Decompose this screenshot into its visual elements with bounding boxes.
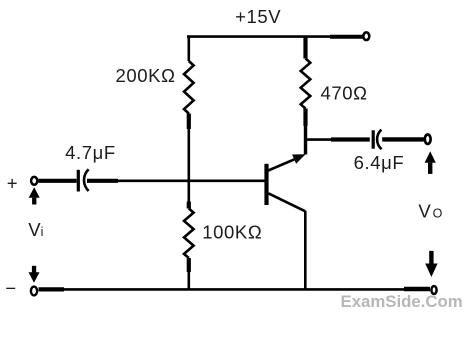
transistor Q1 upper lead xyxy=(268,158,298,171)
arrow output up xyxy=(425,151,436,174)
resistor R2 bottom stub xyxy=(187,258,191,272)
capacitor C2 6.4uF flat plate xyxy=(372,130,375,148)
wire emitter to bottom rail xyxy=(304,211,307,290)
svg-text:Vi: Vi xyxy=(28,219,43,240)
wire top rail thick right segment xyxy=(330,35,363,39)
wire R1 bottom to base node xyxy=(188,129,191,202)
svg-text:−: − xyxy=(5,278,16,299)
resistor R3 470 top stub xyxy=(303,36,307,59)
arrow input up xyxy=(29,187,40,204)
wire C1 to base (thick part) xyxy=(87,179,118,183)
arrow output down xyxy=(425,251,437,277)
wire input terminal to C1 xyxy=(39,179,77,183)
wire top rail xyxy=(187,35,330,38)
svg-text:200KΩ: 200KΩ xyxy=(115,65,175,86)
wire C2 to output terminal xyxy=(382,137,423,141)
wire bottom rail thick left xyxy=(39,287,65,291)
svg-text:VO: VO xyxy=(418,201,442,222)
resistor R2 100K top stub xyxy=(187,202,191,209)
wire bottom rail thick right xyxy=(404,287,430,292)
wire R2 to bottom rail xyxy=(188,272,191,290)
resistor R1 200K zigzag xyxy=(184,61,194,114)
resistor R1 bottom stub xyxy=(187,114,191,130)
capacitor C1 4.7uF flat plate xyxy=(77,170,80,192)
wire bottom rail xyxy=(64,288,404,291)
svg-text:+: + xyxy=(7,172,18,193)
wire C1 to base xyxy=(118,180,265,183)
wire collector to C2 thick part xyxy=(331,137,370,141)
transistor Q1 base bar xyxy=(264,164,268,205)
transistor Q1 lower lead xyxy=(268,193,305,211)
arrow input down xyxy=(29,266,40,283)
wire collector node to C2 xyxy=(306,138,331,141)
capacitor C2 curved plate xyxy=(377,130,382,150)
terminal input bottom xyxy=(31,287,37,296)
terminal +15V top right xyxy=(363,32,369,40)
transistor Q1 arrowhead xyxy=(292,154,306,164)
capacitor C1 curved plate xyxy=(84,169,89,191)
resistor R3 470 zigzag xyxy=(301,59,311,109)
terminal output top xyxy=(425,135,431,144)
wire from rail to R1 top xyxy=(188,35,191,61)
resistor R3 bottom stub xyxy=(303,109,307,127)
wire R3 to collector node xyxy=(304,126,307,155)
terminal input top xyxy=(31,177,37,185)
svg-text:4.7μF: 4.7μF xyxy=(65,142,116,163)
resistor R2 100K zigzag xyxy=(184,209,194,259)
svg-text:470Ω: 470Ω xyxy=(320,82,367,103)
terminal output bottom xyxy=(431,286,436,294)
svg-text:ExamSide.Com: ExamSide.Com xyxy=(341,292,463,311)
svg-text:100KΩ: 100KΩ xyxy=(202,221,262,242)
svg-text:6.4μF: 6.4μF xyxy=(354,152,405,173)
svg-text:+15V: +15V xyxy=(235,6,281,27)
